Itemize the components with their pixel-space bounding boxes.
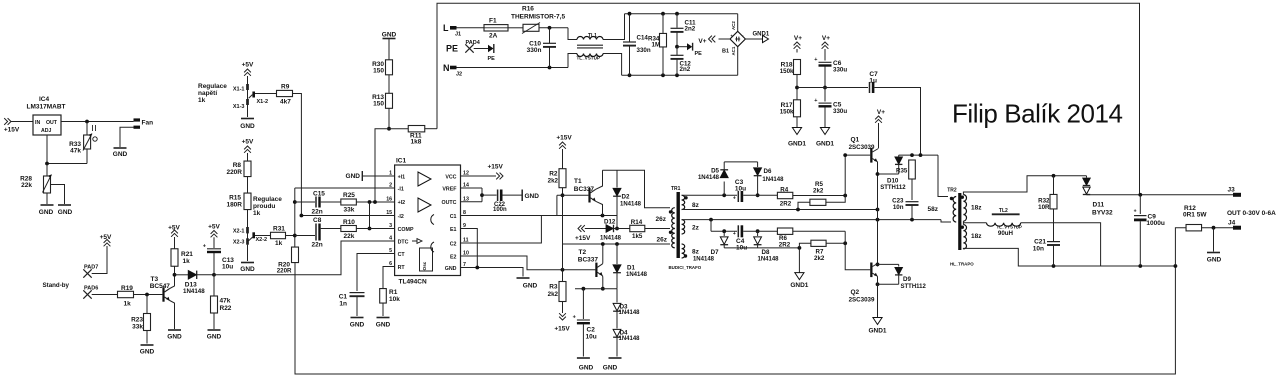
svg-text:+: + <box>203 244 206 250</box>
svg-text:2R2: 2R2 <box>780 200 792 207</box>
svg-text:R10: R10 <box>343 219 355 226</box>
svg-text:BUDICI_TRAFO: BUDICI_TRAFO <box>669 265 702 270</box>
svg-text:PE: PE <box>446 44 458 54</box>
svg-text:Stand-by: Stand-by <box>43 282 70 289</box>
svg-text:1N4148: 1N4148 <box>758 257 780 263</box>
svg-text:X1-3: X1-3 <box>233 104 245 110</box>
svg-text:10k: 10k <box>389 296 400 303</box>
svg-text:D2: D2 <box>622 194 630 201</box>
svg-text:X1-1: X1-1 <box>233 87 245 93</box>
svg-text:GND: GND <box>376 322 391 329</box>
svg-text:L: L <box>443 23 449 33</box>
svg-text:J1: J1 <box>455 32 461 38</box>
svg-text:220R: 220R <box>277 268 292 275</box>
svg-text:GND: GND <box>382 31 397 38</box>
svg-text:Filip Balík 2014: Filip Balík 2014 <box>952 98 1123 128</box>
svg-text:R22: R22 <box>220 305 232 312</box>
svg-text:1N4148: 1N4148 <box>183 288 205 295</box>
svg-text:TL_VYSTUP: TL_VYSTUP <box>997 224 1022 229</box>
svg-text:TL1: TL1 <box>588 33 597 39</box>
svg-text:R9: R9 <box>281 84 290 91</box>
svg-text:C1: C1 <box>339 294 348 301</box>
svg-text:2A: 2A <box>489 33 498 40</box>
svg-text:ADJ: ADJ <box>41 128 51 134</box>
svg-text:X1-2: X1-2 <box>257 99 269 105</box>
svg-text:+5V: +5V <box>242 139 254 146</box>
svg-text:16: 16 <box>386 196 392 202</box>
svg-text:2k2: 2k2 <box>813 188 824 195</box>
svg-text:R23: R23 <box>131 317 143 324</box>
svg-text:2z: 2z <box>692 225 700 232</box>
svg-text:90uH: 90uH <box>998 230 1014 237</box>
svg-text:10R: 10R <box>1038 204 1050 211</box>
svg-text:1N4148: 1N4148 <box>698 175 720 181</box>
svg-text:DTC: DTC <box>398 239 409 245</box>
svg-text:22k: 22k <box>344 233 355 240</box>
svg-text:D6: D6 <box>764 168 772 175</box>
svg-text:TL494CN: TL494CN <box>399 279 427 286</box>
svg-text:GND: GND <box>523 283 538 290</box>
svg-text:10u: 10u <box>222 264 233 271</box>
svg-text:TL2: TL2 <box>999 208 1008 214</box>
svg-text:1k: 1k <box>275 240 283 247</box>
svg-text:180R: 180R <box>226 202 242 209</box>
svg-text:1N4148: 1N4148 <box>600 236 622 242</box>
svg-text:D5: D5 <box>711 168 719 175</box>
svg-text:1k: 1k <box>124 301 132 308</box>
svg-text:B1: B1 <box>722 49 729 55</box>
svg-text:D8: D8 <box>762 249 770 256</box>
svg-text:26z: 26z <box>656 216 667 223</box>
svg-text:E1: E1 <box>450 227 457 233</box>
svg-text:+5V: +5V <box>208 224 220 231</box>
svg-text:+: + <box>573 315 576 321</box>
svg-text:J4: J4 <box>1228 220 1236 227</box>
svg-text:GND: GND <box>1207 257 1222 264</box>
svg-text:R4: R4 <box>780 187 788 194</box>
svg-text:IC1: IC1 <box>396 158 407 165</box>
svg-text:C15: C15 <box>313 190 325 197</box>
svg-text:+: + <box>814 57 817 63</box>
svg-text:TL_VSTUP: TL_VSTUP <box>577 56 600 61</box>
svg-text:22n: 22n <box>312 242 323 249</box>
svg-text:GND1: GND1 <box>868 328 886 335</box>
svg-text:330n: 330n <box>527 47 542 54</box>
svg-text:330n: 330n <box>637 47 651 54</box>
svg-text:R19: R19 <box>121 285 133 292</box>
svg-text:22n: 22n <box>312 209 323 216</box>
svg-text:PE: PE <box>695 51 703 57</box>
svg-text:C1: C1 <box>450 214 457 220</box>
svg-text:R1: R1 <box>389 289 398 296</box>
svg-text:RT: RT <box>398 265 406 271</box>
svg-text:GND: GND <box>445 266 457 272</box>
svg-text:1N4148: 1N4148 <box>762 177 784 183</box>
svg-text:GND: GND <box>140 349 155 356</box>
svg-text:T3: T3 <box>151 276 159 283</box>
svg-text:TR1: TR1 <box>671 186 681 192</box>
svg-text:Regulace: Regulace <box>198 83 227 90</box>
svg-text:V+: V+ <box>822 35 830 42</box>
svg-text:GND: GND <box>525 193 540 200</box>
svg-text:1N4148: 1N4148 <box>626 272 648 278</box>
svg-text:GND1: GND1 <box>816 141 834 148</box>
svg-text:+: + <box>733 231 736 237</box>
svg-text:2SC3039: 2SC3039 <box>849 297 875 304</box>
svg-text:26z: 26z <box>657 237 668 244</box>
svg-text:33k: 33k <box>344 207 355 214</box>
svg-text:BC547: BC547 <box>150 283 171 290</box>
svg-text:+15V: +15V <box>575 235 591 242</box>
svg-text:V+: V+ <box>877 109 885 116</box>
svg-text:1k: 1k <box>183 258 191 265</box>
svg-text:Regulace: Regulace <box>253 196 282 203</box>
svg-text:GND: GND <box>207 334 222 341</box>
svg-text:GND: GND <box>240 266 255 273</box>
svg-text:COMP: COMP <box>398 227 414 233</box>
svg-text:58z: 58z <box>928 206 939 213</box>
svg-text:R3: R3 <box>549 284 558 291</box>
svg-text:T1: T1 <box>574 178 582 185</box>
svg-text:GND: GND <box>579 365 594 372</box>
svg-text:D7: D7 <box>711 249 719 256</box>
svg-text:10u: 10u <box>735 185 746 192</box>
svg-text:R14: R14 <box>631 219 643 226</box>
svg-text:+15V: +15V <box>554 326 570 333</box>
svg-text:47k: 47k <box>220 298 231 305</box>
svg-text:CT: CT <box>398 252 406 258</box>
svg-text:1k: 1k <box>253 210 261 217</box>
svg-text:D10: D10 <box>887 177 899 184</box>
svg-text:GND: GND <box>350 322 365 329</box>
svg-text:2n2: 2n2 <box>680 66 691 73</box>
svg-text:IN: IN <box>35 120 40 126</box>
svg-text:PE: PE <box>488 56 496 62</box>
svg-text:GND: GND <box>113 151 128 158</box>
svg-text:150: 150 <box>373 101 384 108</box>
svg-text:10n: 10n <box>1033 245 1044 252</box>
svg-text:OUT: OUT <box>46 120 58 126</box>
svg-text:+15V: +15V <box>4 127 20 134</box>
svg-text:VCC: VCC <box>445 174 456 180</box>
svg-text:1n: 1n <box>339 301 347 308</box>
svg-text:OUTC: OUTC <box>441 200 456 206</box>
svg-text:1M: 1M <box>652 42 661 49</box>
svg-text:T2: T2 <box>579 249 587 256</box>
svg-text:D9: D9 <box>903 276 911 283</box>
svg-text:+: + <box>733 195 736 201</box>
svg-text:1u: 1u <box>869 78 877 85</box>
svg-text:proudu: proudu <box>253 203 275 210</box>
svg-text:2k2: 2k2 <box>548 178 559 185</box>
svg-text:GND: GND <box>603 365 618 372</box>
svg-text:18z: 18z <box>971 204 982 211</box>
svg-text:10u: 10u <box>586 333 597 340</box>
svg-text:AC1: AC1 <box>731 46 736 55</box>
svg-text:150k: 150k <box>780 109 794 116</box>
svg-text:Osc: Osc <box>422 261 427 270</box>
svg-text:1N4148: 1N4148 <box>619 310 641 316</box>
svg-text:GND1: GND1 <box>753 32 770 38</box>
svg-text:HL_TRAPO: HL_TRAPO <box>950 262 974 267</box>
svg-text:BYV32: BYV32 <box>1092 210 1113 217</box>
svg-text:1N4148: 1N4148 <box>693 257 715 263</box>
svg-text:+5V: +5V <box>100 234 112 241</box>
svg-text:X2-1: X2-1 <box>233 229 245 235</box>
svg-text:OUT 0-30V 0-6A: OUT 0-30V 0-6A <box>1227 210 1276 217</box>
svg-text:D1: D1 <box>627 264 635 271</box>
svg-text:1k: 1k <box>198 97 206 104</box>
svg-text:+I1: +I1 <box>398 174 406 180</box>
svg-text:R25: R25 <box>343 192 355 199</box>
svg-text:10n: 10n <box>893 204 904 211</box>
svg-text:+: + <box>1134 209 1137 215</box>
svg-text:R16: R16 <box>522 6 534 13</box>
svg-text:napětí: napětí <box>198 90 217 97</box>
svg-text:STTH112: STTH112 <box>901 284 927 290</box>
svg-text:+: + <box>814 98 817 104</box>
svg-text:+5V: +5V <box>242 62 254 69</box>
svg-text:C2: C2 <box>450 241 457 247</box>
svg-text:R31: R31 <box>273 226 285 233</box>
svg-text:+15V: +15V <box>488 164 504 171</box>
svg-text:GND: GND <box>346 173 361 180</box>
svg-text:GND: GND <box>240 123 255 130</box>
svg-text:R2: R2 <box>549 171 558 178</box>
svg-text:BC337: BC337 <box>578 257 599 264</box>
svg-text:D12: D12 <box>604 219 616 226</box>
svg-text:100n: 100n <box>493 207 507 213</box>
svg-text:-I2: -I2 <box>398 214 404 220</box>
svg-text:R15: R15 <box>229 195 241 202</box>
svg-text:1k5: 1k5 <box>632 233 643 240</box>
svg-text:LM317MABT: LM317MABT <box>26 104 65 111</box>
svg-text:Q1: Q1 <box>851 136 860 143</box>
svg-text:150k: 150k <box>780 68 794 75</box>
svg-text:2k2: 2k2 <box>814 255 825 262</box>
svg-text:2k2: 2k2 <box>548 291 559 298</box>
svg-text:1000u: 1000u <box>1146 220 1164 227</box>
svg-text:GND: GND <box>58 209 73 216</box>
svg-text:C8: C8 <box>313 217 322 224</box>
svg-text:Fan: Fan <box>142 120 154 127</box>
svg-text:330u: 330u <box>833 67 847 74</box>
svg-text:STTH112: STTH112 <box>880 185 906 191</box>
svg-text:1N4148: 1N4148 <box>620 202 642 208</box>
svg-text:V+: V+ <box>794 35 802 42</box>
svg-text:GND: GND <box>167 334 182 341</box>
svg-text:8z: 8z <box>692 202 700 209</box>
svg-text:220R: 220R <box>226 169 242 176</box>
svg-text:18z: 18z <box>971 233 982 240</box>
svg-text:-I1: -I1 <box>398 186 404 192</box>
svg-text:D11: D11 <box>1093 201 1105 208</box>
svg-text:X2-3: X2-3 <box>233 240 245 246</box>
svg-text:IC4: IC4 <box>39 96 50 103</box>
svg-text:R21: R21 <box>181 251 193 258</box>
svg-text:22k: 22k <box>21 182 32 189</box>
svg-text:V+: V+ <box>698 38 706 45</box>
svg-text:4k7: 4k7 <box>280 99 291 106</box>
svg-text:GND: GND <box>39 209 54 216</box>
svg-text:1N4148: 1N4148 <box>619 336 641 342</box>
svg-text:J2: J2 <box>456 72 462 78</box>
svg-text:Q2: Q2 <box>851 289 860 296</box>
svg-text:2n2: 2n2 <box>685 26 696 33</box>
svg-text:33k: 33k <box>132 324 143 331</box>
svg-text:GND1: GND1 <box>788 141 806 148</box>
svg-text:GND1: GND1 <box>790 282 808 289</box>
svg-text:E2: E2 <box>450 254 457 260</box>
svg-text:330u: 330u <box>833 108 847 115</box>
svg-text:J3: J3 <box>1228 187 1236 194</box>
svg-text:VREF: VREF <box>442 186 457 192</box>
svg-text:0R1 5W: 0R1 5W <box>1183 212 1207 219</box>
svg-text:AC2: AC2 <box>731 21 736 30</box>
svg-text:150: 150 <box>373 68 384 75</box>
svg-text:N: N <box>443 63 450 73</box>
svg-text:+15V: +15V <box>556 135 572 142</box>
svg-text:+: + <box>730 34 733 39</box>
svg-text:R8: R8 <box>233 162 242 169</box>
svg-text:+I2: +I2 <box>398 200 406 206</box>
svg-text:X2-2: X2-2 <box>256 237 268 243</box>
svg-text:R35: R35 <box>896 167 908 174</box>
svg-text:THERMISTOR-7,5: THERMISTOR-7,5 <box>511 14 565 21</box>
svg-text:1k8: 1k8 <box>411 139 422 146</box>
svg-text:C14: C14 <box>637 35 649 42</box>
svg-text:F1: F1 <box>489 18 497 25</box>
svg-text:47k: 47k <box>70 148 81 155</box>
svg-text:TR2: TR2 <box>947 187 957 193</box>
svg-text:4: 4 <box>389 236 392 242</box>
svg-text:8z: 8z <box>692 249 700 256</box>
